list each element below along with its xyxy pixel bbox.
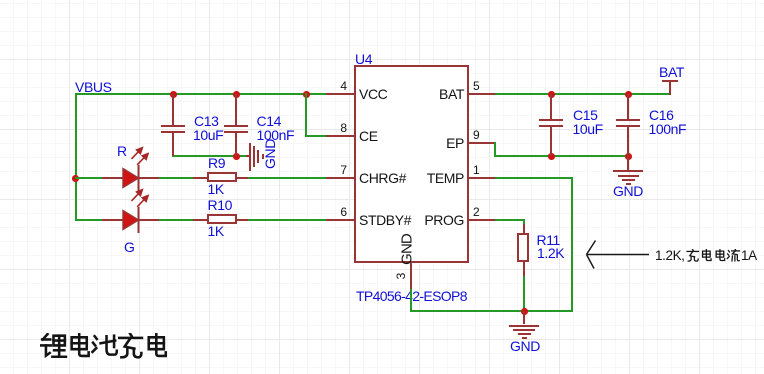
wire row2 mid xyxy=(159,219,193,221)
pin 7 CHRG# xyxy=(326,177,355,179)
junction C15 top xyxy=(548,91,555,98)
wire VBUS horizontal xyxy=(75,93,328,95)
resistor R9 xyxy=(193,177,207,179)
wire row2 left xyxy=(75,219,103,221)
capacitor C16 xyxy=(627,94,629,119)
wire PROG down xyxy=(523,219,525,225)
annotation arrow xyxy=(583,236,653,272)
wire row2 right xyxy=(247,219,327,221)
wire PROG right xyxy=(495,219,525,221)
pin 4 VCC xyxy=(326,93,355,95)
junction GND bottom xyxy=(521,308,528,315)
junction VBUS/CE branch xyxy=(303,91,310,98)
annotation CJK charging current xyxy=(686,249,741,263)
LED R xyxy=(117,144,127,158)
capacitor C15 xyxy=(550,94,552,119)
pin 8 CE xyxy=(326,135,355,137)
wire CE branch vertical xyxy=(305,93,307,137)
wire C13-C14 bottom xyxy=(172,155,246,157)
junction C16 bottom xyxy=(625,153,632,160)
junction C14 bottom xyxy=(233,153,240,160)
title lithium battery charging xyxy=(40,333,170,360)
glyph defs xyxy=(0,0,5,5)
wire EP bottom horizontal xyxy=(494,155,629,157)
capacitor C13 xyxy=(172,94,174,125)
ground GND rotated near C14 xyxy=(246,155,250,157)
wire TEMP right xyxy=(495,177,573,179)
pin 5 BAT xyxy=(467,93,495,95)
wire CE branch horizontal xyxy=(305,135,327,137)
wire right vertical xyxy=(571,177,573,312)
pin 9 EP xyxy=(467,142,495,144)
ground GND under C16 xyxy=(627,156,629,171)
pin 2 PROG xyxy=(467,219,495,221)
pin 3 GND xyxy=(410,261,412,290)
wire pin5 to BAT xyxy=(495,93,670,95)
wire row1 mid xyxy=(159,177,193,179)
resistor R11 xyxy=(523,224,525,233)
pin 6 STDBY# xyxy=(326,219,355,221)
capacitor C14 xyxy=(235,94,237,125)
junction C16 top xyxy=(625,91,632,98)
op-amp U4 IC body xyxy=(355,52,372,66)
wire EP down xyxy=(494,142,496,157)
resistor R10 xyxy=(193,219,207,221)
ground GND under R11 xyxy=(523,311,525,324)
junction VBUS/C13 xyxy=(170,91,177,98)
wire pin3 down xyxy=(410,289,412,312)
pin 1 TEMP xyxy=(467,177,495,179)
wire row1 left xyxy=(75,177,103,179)
LED G xyxy=(124,240,135,254)
junction VBUS/C14 xyxy=(233,91,240,98)
wire VBUS left vertical xyxy=(75,93,77,221)
wire R11 bottom xyxy=(523,276,525,312)
node BAT flag xyxy=(669,81,671,96)
wire bottom horizontal xyxy=(410,310,573,312)
junction LED row xyxy=(72,175,79,182)
node VBUS label xyxy=(75,80,112,94)
junction C15 bottom xyxy=(548,153,555,160)
annotation text 1.2K charging current 1A xyxy=(655,249,685,263)
wire row1 right xyxy=(247,177,327,179)
